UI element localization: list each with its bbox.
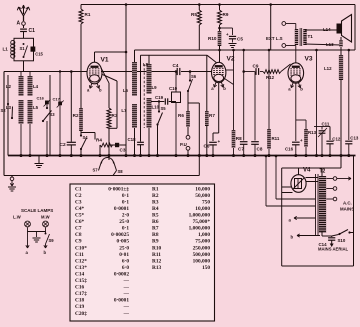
svg-text:S2: S2 bbox=[1, 108, 7, 113]
svg-text:C12: C12 bbox=[332, 137, 341, 142]
wire HT to T1 bbox=[270, 5, 272, 51]
svg-text:C15: C15 bbox=[35, 52, 43, 57]
svg-text:0·0001: 0·0001 bbox=[114, 298, 129, 304]
svg-text:C2: C2 bbox=[60, 142, 66, 148]
capacitor C12 bbox=[329, 127, 331, 141]
svg-text:0·1: 0·1 bbox=[122, 193, 129, 199]
svg-text:C11: C11 bbox=[75, 252, 84, 258]
svg-text:10,000: 10,000 bbox=[195, 206, 210, 212]
valve V2 bbox=[212, 62, 226, 82]
V2 top cap line bbox=[207, 55, 216, 62]
lamp leads bbox=[27, 232, 29, 249]
earth terminal bbox=[11, 176, 13, 178]
svg-text:C13*: C13* bbox=[75, 265, 87, 271]
ext LS terminals bbox=[282, 22, 286, 26]
switch S5 bbox=[158, 102, 160, 112]
svg-text:500,000: 500,000 bbox=[193, 252, 211, 258]
svg-text:L5: L5 bbox=[33, 105, 39, 110]
switch S6 bbox=[189, 72, 191, 81]
coil wires bbox=[134, 128, 136, 156]
wire aerial to grid bus bbox=[23, 61, 25, 72]
svg-text:R13: R13 bbox=[308, 130, 317, 135]
svg-text:L4: L4 bbox=[33, 84, 39, 89]
svg-text:0·1: 0·1 bbox=[122, 199, 129, 205]
capacitor C4 bbox=[176, 68, 178, 75]
valve V3 bbox=[288, 63, 304, 83]
svg-text:C16: C16 bbox=[37, 96, 45, 101]
capacitor C2 bbox=[70, 72, 72, 142]
V4 anode lead bbox=[298, 168, 300, 175]
svg-text:75,000: 75,000 bbox=[195, 239, 210, 245]
svg-text:R9: R9 bbox=[223, 12, 229, 17]
resistor R6 bbox=[187, 103, 189, 111]
wire plain right bbox=[316, 50, 318, 156]
V2 grid line bbox=[141, 54, 208, 56]
HT rail top bbox=[81, 4, 355, 6]
heater tap a bbox=[294, 217, 316, 219]
wire S8 return bbox=[113, 171, 117, 176]
svg-text:S7: S7 bbox=[93, 168, 99, 173]
svg-text:6·0: 6·0 bbox=[122, 265, 129, 271]
svg-text:b: b bbox=[223, 86, 226, 91]
svg-text:C14: C14 bbox=[75, 271, 85, 277]
svg-text:250,000: 250,000 bbox=[193, 245, 211, 251]
svg-text:750: 750 bbox=[202, 199, 210, 205]
svg-text:C15‡: C15‡ bbox=[75, 278, 87, 284]
svg-text:R8: R8 bbox=[152, 232, 159, 238]
grid wire V3 bbox=[244, 71, 255, 73]
svg-text:R6: R6 bbox=[152, 219, 159, 225]
svg-text:S8: S8 bbox=[118, 169, 124, 174]
svg-text:1,000,000: 1,000,000 bbox=[189, 213, 211, 219]
capacitor C8 bbox=[254, 72, 256, 141]
valve V4 rectifier bbox=[291, 175, 306, 193]
svg-text:—: — bbox=[123, 285, 130, 291]
capacitor C9 bbox=[255, 68, 257, 75]
svg-text:T1: T1 bbox=[308, 34, 314, 39]
svg-text:S5: S5 bbox=[161, 106, 167, 111]
primary feed upper bbox=[275, 156, 277, 199]
svg-text:L1: L1 bbox=[3, 47, 9, 52]
svg-text:2·0: 2·0 bbox=[122, 213, 129, 219]
svg-text:P.U: P.U bbox=[180, 142, 187, 147]
resistor R13 bbox=[296, 119, 306, 121]
svg-text:L7: L7 bbox=[121, 108, 127, 113]
svg-text:L8: L8 bbox=[143, 62, 149, 67]
svg-text:C6*: C6* bbox=[75, 219, 85, 225]
svg-text:L3: L3 bbox=[6, 105, 12, 110]
core dashes bbox=[143, 64, 145, 128]
capacitor C5 bbox=[220, 27, 233, 29]
V2 anode outputs bbox=[226, 69, 234, 71]
svg-text:T2: T2 bbox=[320, 169, 326, 175]
svg-text:L12: L12 bbox=[324, 66, 332, 71]
rail junctions bbox=[125, 3, 128, 6]
svg-text:25·0: 25·0 bbox=[119, 245, 129, 251]
svg-text:L13: L13 bbox=[326, 42, 334, 47]
capacitor C16 bbox=[295, 83, 297, 141]
speaker wires bbox=[305, 29, 338, 31]
capacitor C3 bbox=[109, 144, 115, 146]
right edge wire bbox=[354, 5, 356, 51]
transformer T1 bbox=[295, 29, 298, 45]
svg-text:S10: S10 bbox=[338, 238, 346, 243]
svg-text:0·01: 0·01 bbox=[119, 252, 129, 258]
coil L9 bbox=[147, 98, 152, 128]
V2 cathode drop bbox=[218, 83, 220, 133]
heater tap b bbox=[321, 232, 323, 237]
svg-text:L2: L2 bbox=[6, 84, 12, 89]
wire R3 to switch S7 bbox=[108, 145, 110, 160]
svg-text:R8: R8 bbox=[236, 136, 242, 141]
svg-text:A: A bbox=[17, 21, 21, 27]
svg-text:C6: C6 bbox=[204, 144, 210, 149]
svg-text:C10: C10 bbox=[169, 86, 178, 91]
svg-text:C16: C16 bbox=[75, 285, 85, 291]
svg-text:0·0002: 0·0002 bbox=[114, 271, 129, 277]
svg-text:b: b bbox=[44, 250, 47, 255]
bus junctions bbox=[19, 154, 22, 157]
lamp MW bbox=[43, 221, 49, 227]
capacitor C14 bbox=[322, 235, 332, 237]
osc grid lead bbox=[103, 75, 118, 82]
svg-text:M.W: M.W bbox=[41, 215, 50, 220]
svg-text:R12: R12 bbox=[152, 258, 162, 264]
aerial tuner box bbox=[14, 38, 34, 61]
svg-text:L9: L9 bbox=[152, 85, 158, 90]
svg-text:0·1: 0·1 bbox=[122, 226, 129, 232]
svg-text:—: — bbox=[123, 311, 130, 317]
svg-text:C9: C9 bbox=[75, 239, 82, 245]
PSU box feed bbox=[340, 156, 342, 169]
osc coil feed bbox=[134, 50, 136, 62]
resistor R11 bbox=[268, 50, 270, 129]
svg-text:A.C.: A.C. bbox=[343, 201, 352, 206]
svg-text:C5*: C5* bbox=[75, 213, 85, 219]
svg-text:R13: R13 bbox=[152, 265, 162, 271]
svg-text:+: + bbox=[218, 139, 221, 144]
svg-text:R12: R12 bbox=[266, 75, 275, 80]
svg-text:C7: C7 bbox=[75, 226, 82, 232]
svg-text:C4: C4 bbox=[173, 63, 179, 68]
V3 anode wire bbox=[295, 46, 297, 63]
V4 heater leads bbox=[282, 186, 291, 188]
svg-text:S9: S9 bbox=[49, 238, 55, 243]
svg-text:1,000: 1,000 bbox=[198, 232, 210, 238]
V1 grid diagonal bbox=[101, 68, 109, 84]
svg-text:C11: C11 bbox=[322, 122, 330, 127]
V4 anode wire bbox=[298, 171, 300, 175]
switch S7 S8 wavechange bbox=[102, 158, 114, 164]
svg-text:R9: R9 bbox=[152, 239, 159, 245]
svg-text:R10: R10 bbox=[152, 245, 162, 251]
svg-text:C12*: C12* bbox=[75, 258, 87, 264]
svg-text:V4: V4 bbox=[303, 168, 311, 174]
svg-text:25·0: 25·0 bbox=[119, 219, 129, 225]
wire R2 tap bbox=[81, 132, 95, 134]
speaker cone L14 bbox=[342, 15, 352, 43]
svg-text:L10: L10 bbox=[152, 105, 160, 110]
values table bbox=[70, 184, 215, 321]
antenna bbox=[19, 7, 24, 21]
capacitor C10 bbox=[175, 72, 177, 93]
svg-text:0·005: 0·005 bbox=[117, 239, 130, 245]
switch S10 bbox=[332, 235, 339, 237]
screen rail bbox=[135, 49, 356, 51]
svg-text:R6: R6 bbox=[178, 113, 184, 118]
svg-text:+: + bbox=[300, 138, 303, 143]
svg-text:C8: C8 bbox=[75, 232, 82, 238]
svg-text:C19: C19 bbox=[155, 95, 164, 100]
coil L7 bbox=[132, 104, 137, 128]
coil L8 bbox=[147, 64, 152, 94]
svg-text:S6: S6 bbox=[191, 74, 197, 79]
coil L4 bbox=[28, 76, 33, 96]
chassis bus bbox=[8, 155, 356, 157]
svg-text:R11: R11 bbox=[152, 252, 161, 258]
svg-text:C5: C5 bbox=[237, 37, 243, 42]
V1 anode wire bbox=[94, 52, 96, 62]
svg-text:EXT L.S: EXT L.S bbox=[266, 36, 283, 41]
svg-text:b: b bbox=[291, 235, 294, 240]
valve V1 bbox=[87, 62, 102, 84]
grid bus bbox=[4, 71, 87, 73]
svg-text:b: b bbox=[99, 87, 102, 92]
svg-text:C17‡: C17‡ bbox=[75, 291, 87, 297]
svg-text:R7: R7 bbox=[152, 226, 159, 232]
svg-text:R4: R4 bbox=[96, 138, 102, 143]
svg-text:1,000,000: 1,000,000 bbox=[189, 226, 211, 232]
svg-text:100,000: 100,000 bbox=[193, 258, 211, 264]
svg-text:MAINS: MAINS bbox=[340, 207, 354, 212]
svg-text:C18: C18 bbox=[128, 137, 137, 142]
wire coil feeds bbox=[20, 72, 22, 77]
svg-text:0·0001: 0·0001 bbox=[114, 206, 129, 212]
svg-text:R10: R10 bbox=[208, 36, 217, 41]
svg-text:L.W: L.W bbox=[13, 215, 21, 220]
svg-text:6·0: 6·0 bbox=[122, 258, 129, 264]
capacitor C1 bbox=[20, 28, 27, 30]
svg-text:R2: R2 bbox=[152, 193, 159, 199]
svg-text:C17: C17 bbox=[53, 97, 61, 102]
PSU box bbox=[282, 167, 341, 169]
svg-text:L6: L6 bbox=[123, 88, 129, 93]
svg-text:—: — bbox=[123, 291, 130, 297]
T2 taps right bbox=[326, 178, 333, 180]
svg-text:S1: S1 bbox=[20, 46, 26, 51]
svg-text:S3: S3 bbox=[50, 112, 56, 117]
svg-text:C4*: C4* bbox=[75, 206, 85, 212]
svg-text:R5: R5 bbox=[152, 213, 159, 219]
svg-text:C13: C13 bbox=[350, 136, 359, 141]
resistor R9 bbox=[219, 5, 221, 11]
svg-text:0·0001±‡: 0·0001±‡ bbox=[108, 186, 129, 192]
svg-text:R7: R7 bbox=[209, 113, 215, 118]
svg-text:—: — bbox=[123, 304, 130, 310]
svg-text:0·00025: 0·00025 bbox=[111, 232, 129, 238]
V1 anode HT riser bbox=[125, 5, 127, 156]
coil L5 bbox=[28, 100, 33, 124]
svg-text:C1: C1 bbox=[29, 28, 36, 34]
T2 core bbox=[315, 174, 317, 236]
svg-text:R4: R4 bbox=[152, 206, 159, 212]
left edge wire bbox=[3, 72, 5, 176]
svg-text:R3: R3 bbox=[152, 199, 159, 205]
hum coil L13 bbox=[340, 37, 342, 40]
resistor R12 bbox=[260, 71, 263, 73]
capacitor C19 bbox=[151, 101, 164, 103]
resistor R2 bbox=[80, 72, 82, 109]
capacitor C18 bbox=[140, 55, 142, 141]
svg-text:C9: C9 bbox=[253, 64, 259, 69]
field coil return bbox=[340, 80, 342, 156]
svg-text:C16: C16 bbox=[285, 147, 294, 152]
svg-text:50,000: 50,000 bbox=[195, 193, 210, 199]
svg-text:R1: R1 bbox=[152, 186, 159, 192]
svg-text:10,000: 10,000 bbox=[195, 186, 210, 192]
V3 top cap diagonal bbox=[281, 64, 291, 72]
wire V2 anode riser bbox=[233, 50, 235, 130]
svg-text:SCALE LAMPS: SCALE LAMPS bbox=[21, 208, 53, 213]
resistor R5 bbox=[198, 5, 200, 11]
svg-text:R11: R11 bbox=[272, 136, 280, 141]
coil L3 bbox=[19, 100, 24, 124]
lamp common bbox=[27, 227, 29, 231]
svg-text:C20‡: C20‡ bbox=[75, 311, 87, 317]
resistor R3 bbox=[108, 83, 110, 108]
capacitor C6 bbox=[212, 133, 214, 141]
resistor R7 bbox=[206, 55, 208, 111]
trimmer C15 bbox=[31, 47, 36, 52]
svg-text:75,000*: 75,000* bbox=[193, 219, 211, 225]
svg-text:L14: L14 bbox=[323, 27, 331, 32]
svg-text:V3: V3 bbox=[305, 56, 313, 63]
switch S9 bbox=[45, 233, 47, 235]
svg-text:C3: C3 bbox=[120, 148, 126, 153]
field coil L12 bbox=[339, 55, 343, 80]
capacitor C13 bbox=[348, 50, 350, 140]
svg-text:R5: R5 bbox=[191, 12, 197, 17]
svg-text:—: — bbox=[123, 278, 130, 284]
svg-text:+: + bbox=[226, 32, 229, 37]
ground under coils bbox=[38, 156, 40, 164]
resistor R10 bbox=[218, 31, 222, 46]
svg-text:R1: R1 bbox=[85, 12, 91, 17]
svg-text:MAINS AERIAL: MAINS AERIAL bbox=[318, 247, 349, 252]
svg-text:C18: C18 bbox=[75, 298, 85, 304]
svg-text:C10*: C10* bbox=[75, 245, 87, 251]
pickup terminals PU bbox=[186, 135, 190, 139]
svg-text:C2: C2 bbox=[75, 193, 82, 199]
coil L2 bbox=[19, 76, 24, 96]
capacitor C11 bbox=[314, 126, 330, 128]
svg-text:C1: C1 bbox=[75, 186, 82, 192]
svg-text:C3: C3 bbox=[75, 199, 82, 205]
capacitor C7 bbox=[243, 50, 245, 141]
svg-text:b: b bbox=[300, 87, 303, 92]
svg-text:C8: C8 bbox=[257, 147, 263, 152]
svg-text:V1: V1 bbox=[101, 57, 109, 64]
primary feed lower bbox=[265, 156, 267, 206]
resistor R1 bbox=[79, 9, 83, 24]
coil L6 bbox=[132, 62, 137, 96]
svg-text:150: 150 bbox=[202, 265, 210, 271]
lamp LW bbox=[25, 221, 31, 227]
waveband box bbox=[7, 75, 9, 156]
mains transformer T2 bbox=[319, 176, 326, 233]
svg-text:R2: R2 bbox=[73, 113, 79, 118]
resistor R8 bbox=[232, 130, 236, 148]
svg-text:C19: C19 bbox=[75, 304, 85, 310]
